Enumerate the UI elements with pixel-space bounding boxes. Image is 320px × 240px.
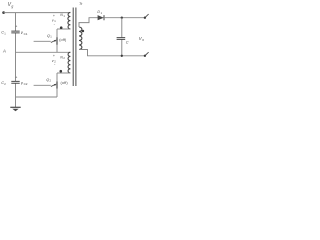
svg-text:C: C <box>126 40 129 44</box>
transistor Q1 <box>56 29 58 52</box>
wire top rail <box>4 12 71 14</box>
svg-text:A: A <box>2 49 6 54</box>
winding N2 <box>68 52 70 73</box>
transistor Q2 <box>56 73 58 97</box>
polarity dot N1 <box>60 26 63 29</box>
svg-text:g: g <box>11 5 13 9</box>
svg-text:+: + <box>53 54 55 58</box>
node dot top of C <box>121 17 123 19</box>
wire N2 bottom lead <box>57 72 70 74</box>
svg-text:C2: C2 <box>24 82 28 86</box>
polarity dot N2 <box>60 70 63 73</box>
wire secondary bottom lead <box>79 50 145 56</box>
transformer core <box>73 8 76 87</box>
svg-text:(off): (off) <box>59 38 67 42</box>
output terminal top <box>144 17 146 19</box>
node dot bottom of C <box>121 55 123 57</box>
ground <box>10 106 20 108</box>
winding N1 <box>68 12 71 29</box>
svg-text:C1: C1 <box>24 32 28 36</box>
wire output top rail <box>104 17 145 19</box>
capacitor C2 <box>11 81 19 83</box>
wire N1 bottom lead <box>57 28 70 30</box>
svg-text:+: + <box>15 25 17 29</box>
wire secondary top lead <box>79 18 98 27</box>
source Vg terminal dot <box>2 11 5 14</box>
polarity dot secondary <box>82 30 85 33</box>
capacitor C1 <box>11 31 19 33</box>
capacitor C output <box>121 18 123 56</box>
wire bottom rail <box>16 96 58 98</box>
output terminal bottom <box>144 55 146 57</box>
svg-text:+: + <box>15 75 17 79</box>
svg-text:o: o <box>142 38 144 42</box>
wire left vertical rail <box>15 13 17 107</box>
wire node A rail <box>16 51 71 53</box>
secondary winding <box>79 27 82 50</box>
diode D1 <box>98 15 104 20</box>
svg-text:(off): (off) <box>61 81 69 85</box>
